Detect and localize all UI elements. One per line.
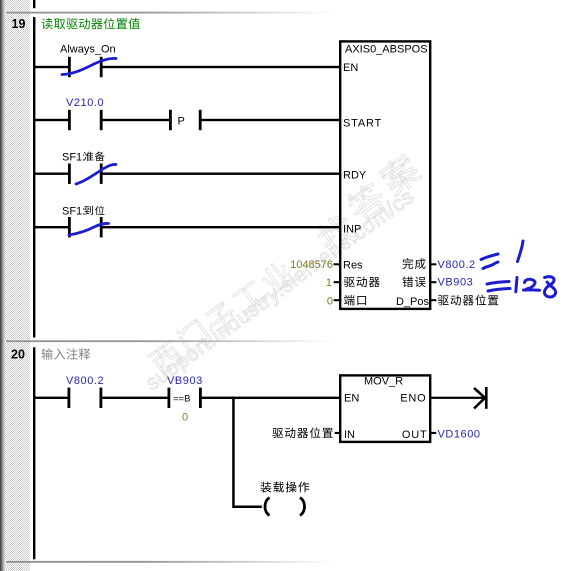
branch wire down from junction	[232, 397, 235, 509]
svg-text:INP: INP	[343, 224, 361, 236]
wire to positive edge contact	[103, 119, 170, 121]
label 装载操作 above coil	[260, 482, 309, 493]
svg-text:V210.0: V210.0	[66, 97, 104, 109]
function block U1 AXIS0_ABSPOS	[340, 41, 430, 309]
tick Res input	[334, 263, 340, 265]
handwritten annotation = 1 next to V800.2	[481, 241, 523, 269]
svg-text:20: 20	[11, 347, 25, 361]
svg-text:IN: IN	[344, 429, 355, 441]
svg-text:OUT: OUT	[402, 429, 428, 441]
handwritten stroke over SF1:到位 contact	[69, 223, 109, 235]
svg-text:Res: Res	[343, 259, 363, 271]
contact SF1:到位	[68, 217, 103, 237]
svg-text:EN: EN	[343, 62, 358, 74]
watermark siemens forum	[141, 151, 423, 395]
branch wire to coil	[234, 506, 262, 509]
svg-text:==B: ==B	[173, 394, 190, 405]
pin 错误 output	[402, 276, 425, 287]
svg-text:P: P	[178, 116, 185, 128]
svg-text:D_Pos: D_Pos	[396, 296, 430, 308]
svg-text:ENO: ENO	[400, 392, 426, 404]
window left border	[0, 0, 5, 571]
svg-text:1: 1	[326, 277, 332, 289]
tick D_Pos output	[430, 299, 436, 301]
handwritten annotation =128 next to VB903	[487, 277, 556, 297]
svg-text:SF1:: SF1:	[62, 206, 85, 218]
compare contact VB903 ==B	[168, 388, 202, 408]
svg-text:Always_On: Always_On	[60, 44, 116, 56]
positive edge contact P	[169, 110, 202, 130]
svg-text:SF1:: SF1:	[62, 152, 85, 164]
svg-text:VB903: VB903	[438, 276, 474, 288]
label 驱动器位置 on IN	[272, 427, 332, 438]
wire rail to contact Always_On	[34, 66, 69, 68]
svg-text:START: START	[343, 118, 382, 130]
pin 端口	[344, 295, 366, 306]
contact Always_On	[68, 57, 103, 77]
wire contact to block INP pin	[103, 226, 341, 228]
contact V210.0	[68, 110, 103, 130]
function block U2 MOV_R	[340, 375, 430, 442]
tick IN input	[335, 432, 341, 434]
svg-text:AXIS0_ABSPOS: AXIS0_ABSPOS	[345, 44, 428, 56]
output coil 装载操作	[265, 498, 305, 516]
handwritten stroke over Always_On contact	[62, 58, 116, 74]
tick 错误 output	[430, 281, 436, 283]
svg-text:V800.2: V800.2	[438, 259, 476, 271]
wire P contact to block START pin	[202, 119, 341, 121]
wire rail to contact SF1:准备	[34, 173, 69, 175]
svg-text:RDY: RDY	[343, 170, 367, 182]
previous network rail stub	[33, 0, 35, 8]
wire rail to contact SF1:到位	[34, 226, 69, 228]
label SF1:准备	[62, 152, 85, 164]
network 19 title 读取驱动器位置值	[41, 18, 139, 29]
network 20 title 输入注释	[42, 348, 91, 359]
wire rail to contact V800.2	[34, 397, 69, 399]
dithered gutter column	[5, 0, 30, 571]
pin 完成 output	[403, 258, 426, 269]
svg-text:VB903: VB903	[167, 375, 203, 387]
contact SF1:准备	[68, 164, 103, 184]
open arrow at ENO (jump indicator)	[474, 387, 486, 409]
label 驱动器位置 on D_Pos output	[438, 295, 498, 306]
network separator 3	[6, 561, 575, 563]
wire compare contact to MOV_R EN	[202, 397, 340, 399]
wire rail to contact V210.0	[34, 119, 69, 121]
tick 驱动器 input	[334, 281, 340, 283]
svg-text:0: 0	[327, 295, 333, 307]
svg-text:EN: EN	[344, 392, 359, 404]
network separator 2	[6, 340, 575, 342]
network 19 left power rail	[33, 17, 35, 338]
svg-text:MOV_R: MOV_R	[364, 376, 403, 388]
contact V800.2	[68, 388, 103, 408]
svg-text:19: 19	[12, 17, 26, 31]
handwritten stroke over SF1:准备 contact	[76, 164, 116, 184]
pin 驱动器	[344, 277, 380, 287]
svg-text:V800.2: V800.2	[66, 375, 104, 387]
label SF1:到位	[62, 206, 85, 218]
svg-text:0: 0	[182, 412, 188, 424]
network separator 1	[6, 12, 575, 14]
wire ENO to arrow	[431, 397, 485, 399]
svg-text:VD1600: VD1600	[438, 428, 481, 440]
tick 完成 output	[430, 263, 436, 265]
tick 端口 input	[334, 299, 340, 301]
svg-text:1048576: 1048576	[290, 259, 333, 271]
network 20 left power rail	[33, 347, 35, 559]
tick OUT output	[430, 432, 436, 434]
wire contact to block RDY pin	[103, 173, 341, 175]
wire contact to block EN pin	[103, 66, 341, 68]
wire to compare contact	[102, 397, 167, 399]
